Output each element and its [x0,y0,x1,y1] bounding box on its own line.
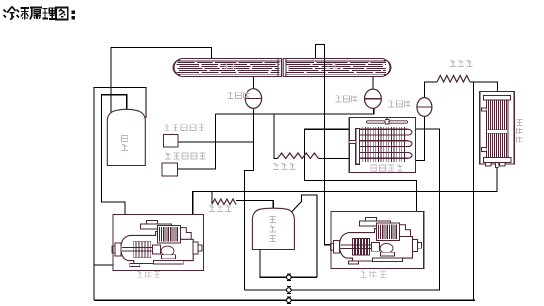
valve port circle 3 [287,297,292,304]
wire lower header to heat exchanger outlet [245,129,440,290]
label 水冷 on condenser 1 [224,64,236,69]
compressor 2 box (压缩机) [331,211,424,268]
wire capillary 2 feed tap [211,192,213,205]
label 蒸发器 (vertical) [516,120,522,143]
label 过滤器 F2 [335,96,357,102]
filter F2 (过滤器) [365,89,382,108]
valve port circle 2 [287,287,292,294]
label 压力控制器 1 [164,125,204,131]
wire capillary 3 outlet to heat exchanger [319,158,350,160]
pressure controller 2 box (压力控制器) [162,163,178,176]
wire filter F3 to capillary 1 [424,82,437,98]
label 毛细管 cap3 [273,164,295,170]
capillary 2 zigzag (毛细管) [212,199,236,205]
condenser 1 shell (water cooled) [173,59,282,77]
compressor 2 internals [331,217,422,264]
heat exchanger (热交换器) with fan and finned coil [349,117,415,172]
wire liquid header under condensers [178,108,374,169]
evaporator (蒸发器) shell and tube [480,92,515,168]
wire condenser 2 outlet to filter F2 [372,77,374,90]
wire compressor 2 discharge to heat exchanger [304,129,416,211]
wire inverted-U into condenser 2 / down to compressor 2 suction [316,45,331,245]
label 储液瓶 (vertical) [269,216,275,241]
label 毛细管 cap2 [209,205,231,211]
condenser 2 shell (water cooled) [283,59,391,77]
wire receiver bottom outlet line [260,250,317,278]
compressor 1 box (压缩机) [113,214,203,270]
filter F1 (过滤器) [245,89,261,109]
label 热交换器 [371,165,403,171]
receiver vessel (储液瓶) [252,208,294,249]
label 过滤器 F1 [227,92,249,98]
label 水冷 on condenser 2 [325,63,337,68]
oil separator vessel (油分) [107,109,145,165]
wire pressure controller 1 to filter drop [178,141,253,143]
wire condenser 1 outlet to filter F1 [252,77,254,90]
compressor 1 internals [112,220,202,266]
label 过滤器 F3 [388,101,410,107]
wire discharge from oil separator top to condenser 1 [111,47,211,114]
wire bottom bus [94,299,475,301]
wire segment crossing condenser 2 [324,59,326,78]
wire capillary 3 feed drop [274,114,278,159]
label 油分 (vertical) [121,135,127,150]
wire capillary 2 outlet into receiver [236,201,273,210]
label 压力控制器 2 [165,153,205,159]
label 压缩机 comp1 [137,271,160,277]
label 毛细管 cap1 [450,60,472,66]
pressure controller 1 box (压力控制器) [164,135,179,147]
wire filter F1 bottom drop / jog / down to lower header [245,108,254,290]
title text 冷冻原理图: [4,7,75,20]
wire receiver equalizing loop [292,195,318,277]
label 压缩机 comp2 [360,271,386,277]
filter F3 (过滤器) [417,98,432,117]
wire filter F3 bottom to heat exchanger right [416,116,425,160]
wire inner frame into oil separator / down to compressor 1 top [102,95,127,215]
valve port circle 1 [287,274,292,281]
wire compressor 1 suction stub [94,264,113,266]
wire outer frame around oil separator (left leg is suction bus) [94,88,146,301]
capillary 1 zigzag (毛细管) [437,76,470,83]
wire suction line compressor1 - evaporator [193,168,497,214]
wire right drop from capillary 1 junction to bottom bus [473,82,475,300]
capillary 3 zigzag (毛细管) [278,153,319,159]
wire capillary 1 outlet to evaporator top [470,82,498,92]
